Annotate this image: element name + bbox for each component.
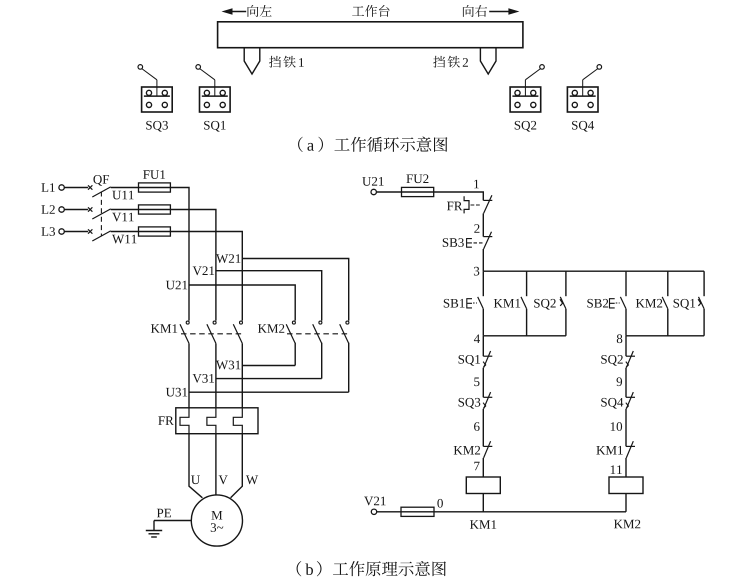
wire KM1-3 to FR <box>241 343 243 407</box>
SB2 actuator E <box>610 299 615 308</box>
label dang-tie-1 <box>269 56 304 68</box>
wire U11 to KM1-1 <box>139 188 190 321</box>
wire U21 to FU2 <box>376 191 401 193</box>
label KM2 (interlock) <box>454 446 480 455</box>
wire V21 to fuse <box>377 511 401 513</box>
wire coil KM1 to rail <box>482 494 484 512</box>
label SQ1 (NO) <box>674 299 695 310</box>
wire bus to SB1 <box>482 271 484 296</box>
button SB3 NC <box>483 232 492 249</box>
contactor KM2 main contact 2 <box>313 321 322 343</box>
wire L1 to FU1 <box>111 187 139 189</box>
terminal L3 circle <box>59 229 64 234</box>
label V11 <box>112 213 133 222</box>
QF linkage dashed <box>100 192 102 237</box>
fuse FU2 <box>402 187 434 196</box>
KM2 linkage dashed <box>287 333 350 335</box>
contactor KM2 main contact 3 <box>340 321 349 343</box>
wire SB1 to node 4 <box>482 309 484 336</box>
fuse FU1-2 <box>139 205 171 214</box>
label U31 <box>166 388 187 397</box>
label dang-tie-2 <box>433 56 468 68</box>
contact KM1 aux NO <box>521 297 527 309</box>
wire node 10 <box>625 409 627 447</box>
coil KM2 <box>609 477 643 494</box>
wire V to motor <box>215 434 217 495</box>
label KM1 (main contacts) <box>151 324 177 333</box>
stop dog 1 <box>244 48 260 74</box>
wire node8 to SQ2nc <box>625 336 627 356</box>
FR contact dashes <box>471 204 482 206</box>
contactor KM1 main contact 3 <box>233 321 242 343</box>
wire bus to KM1 aux <box>526 271 528 296</box>
node 4 <box>474 334 480 343</box>
wire V31 crossover <box>216 378 322 380</box>
label W11 <box>112 235 136 244</box>
wire node 11 <box>625 458 627 477</box>
limit switch SQ2 NO contact <box>560 297 566 309</box>
wire KM1 to node 4 <box>526 309 528 336</box>
label SQ1 (NC) <box>459 355 480 366</box>
wire W to motor <box>231 434 243 498</box>
motor M circle <box>191 495 242 546</box>
wire KM1-2 to FR <box>215 343 217 407</box>
SB1 dashes <box>473 302 477 304</box>
label SB3 <box>443 238 464 247</box>
label SB2 <box>587 299 608 308</box>
wire U21 branch <box>189 285 295 321</box>
label W <box>246 475 258 484</box>
node 7 <box>474 462 479 471</box>
wire W21 branch <box>242 259 348 321</box>
label SQ2 (NO) <box>534 299 556 310</box>
FR heater element 3 <box>233 408 242 434</box>
wire V11 to KM1-2 <box>139 210 216 321</box>
node 10 <box>611 422 622 431</box>
button SB1 NO contact <box>478 297 484 309</box>
limit switch SQ2 symbol <box>510 65 544 112</box>
label U21 <box>166 281 187 290</box>
wire W31 crossover <box>242 365 295 367</box>
SB3 dashes <box>474 242 484 244</box>
label SQ4 (NC) <box>601 398 623 409</box>
wire U to motor <box>189 434 202 498</box>
wire W11 to KM1-3 <box>139 232 243 321</box>
limit switch SQ3 symbol <box>138 65 172 112</box>
node 5 <box>474 377 479 386</box>
wire node 4 <box>483 335 566 337</box>
contactor KM1 main contact 1 <box>180 321 189 343</box>
worktable <box>218 22 523 48</box>
ground symbol <box>146 521 162 538</box>
thermal relay FR box <box>176 408 258 434</box>
label FU1 <box>143 170 165 179</box>
wire KM2 to node 8 <box>667 309 669 336</box>
contactor KM2 main contact 1 <box>286 321 295 343</box>
wire SQ2 to node 4 <box>565 309 567 336</box>
fuse FU1-3 <box>139 227 171 236</box>
label SQ1 <box>204 121 225 132</box>
wire L3 to QF <box>64 231 88 233</box>
label SB1 <box>444 299 465 308</box>
label gong-zuo-tai <box>352 5 389 17</box>
wire L2 to QF <box>64 209 88 211</box>
button SB2 NO contact <box>620 297 626 309</box>
terminal L1 label <box>41 183 54 192</box>
SB2 dashes <box>616 302 620 304</box>
limit switch SQ4 NC contact <box>626 392 635 409</box>
label KM2 (aux) <box>636 299 662 308</box>
wire node4 to SQ1nc <box>482 336 484 356</box>
caption (a) <box>298 137 447 152</box>
limit switch SQ1 symbol <box>196 65 230 112</box>
wire node 8 <box>626 335 704 337</box>
label V21 <box>193 266 214 275</box>
arrow left <box>222 8 247 15</box>
wire coil KM2 to rail <box>625 494 627 512</box>
motor label 3~ <box>211 523 224 532</box>
node 9 <box>617 377 623 386</box>
terminal V21 label <box>364 497 385 506</box>
wire bus to KM2 aux <box>667 271 669 296</box>
label FR (contact) <box>447 202 463 211</box>
wire node 6 <box>482 409 484 447</box>
terminal L1 circle <box>59 185 64 190</box>
contactor KM1 main contact 2 <box>207 321 216 343</box>
wire node 9 <box>625 368 627 398</box>
node 1 <box>474 180 479 189</box>
caption (b) <box>297 561 446 576</box>
label SQ2 (NC) <box>601 355 623 366</box>
label U <box>191 475 200 484</box>
fuse FU1-1 <box>139 183 171 192</box>
label KM2 (main contacts) <box>258 324 284 333</box>
terminal V21 circle <box>371 509 376 514</box>
terminal L2 label <box>41 205 54 214</box>
label SQ2 <box>515 121 537 132</box>
wire node 5 <box>482 368 484 398</box>
wire SB2 to node 8 <box>625 309 627 336</box>
terminal L3 label <box>41 227 55 236</box>
motor label M <box>211 511 222 520</box>
label SQ4 <box>572 121 594 132</box>
wire node 1 <box>402 192 484 200</box>
label KM2 (coil) <box>614 520 640 529</box>
label SQ3 <box>146 121 168 132</box>
label KM1 (aux) <box>494 299 520 308</box>
wire L3 to FU1 <box>111 231 139 233</box>
node 0 <box>437 499 443 508</box>
terminal U21 (control) label <box>362 177 383 186</box>
node 8 <box>617 334 623 343</box>
contact KM2 NC interlock <box>483 441 492 458</box>
stop dog 2 <box>480 48 496 74</box>
wire KM2-3 down <box>348 343 350 393</box>
label SQ3 (NC) <box>459 398 481 409</box>
wire node 7 <box>482 458 484 477</box>
limit switch SQ3 NC contact <box>483 392 492 409</box>
label U11 <box>112 191 133 200</box>
breaker QF pole 1 <box>88 185 111 197</box>
wire SQ1 to node 8 <box>703 309 705 336</box>
label KM1 (coil) <box>470 520 496 529</box>
SB1 actuator E <box>467 299 472 308</box>
label KM1 (interlock) <box>596 446 622 455</box>
label xiang-you <box>463 5 487 17</box>
wire KM2-1 down <box>294 343 296 366</box>
node 11 <box>611 465 622 474</box>
label PE <box>157 509 171 518</box>
coil KM1 <box>466 477 500 494</box>
limit switch SQ2 NC contact <box>626 351 635 368</box>
label FU2 <box>406 174 428 183</box>
wire node 3 vertical <box>482 249 484 271</box>
wire node 2 <box>482 213 484 236</box>
FR contact NC <box>483 195 492 213</box>
wire node 3 bus <box>483 270 704 272</box>
label FR (heaters) <box>158 416 174 425</box>
wire bus to SQ1 NO <box>703 271 705 296</box>
wire bus to SB2 <box>625 271 627 296</box>
terminal U21 (control) circle <box>371 189 376 194</box>
label V <box>219 475 228 484</box>
FR heater element 2 <box>207 408 216 434</box>
wire KM2-2 down <box>321 343 323 379</box>
limit switch SQ1 NO contact <box>698 297 704 309</box>
label V31 <box>193 374 214 383</box>
wire node 0 rail <box>401 511 626 513</box>
contact KM1 NC interlock <box>626 441 635 458</box>
FR heater element 1 <box>180 408 189 434</box>
fuse FU (bottom) <box>401 507 434 516</box>
label QF <box>93 175 109 186</box>
breaker QF pole 3 <box>88 229 111 241</box>
FR contact element <box>464 196 469 213</box>
node 2 <box>474 224 479 233</box>
wire bus to SQ2 NO <box>565 271 567 296</box>
wire L2 to FU1 <box>111 209 139 211</box>
KM1 linkage dashed <box>181 333 244 335</box>
limit switch SQ4 symbol <box>567 65 601 112</box>
wire L1 to QF <box>64 187 88 189</box>
SB3 actuator E <box>467 239 472 248</box>
terminal L2 circle <box>59 207 64 212</box>
label xiang-zuo <box>248 5 272 17</box>
label W31 <box>216 361 240 370</box>
limit switch SQ1 NC contact <box>483 351 492 368</box>
breaker QF pole 2 <box>88 207 111 219</box>
arrow right <box>489 8 519 15</box>
wire U31 crossover <box>189 391 349 393</box>
label W21 <box>216 254 240 263</box>
contact KM2 aux NO <box>662 297 668 309</box>
wire KM1-1 to FR <box>188 343 190 407</box>
node 6 <box>474 422 480 431</box>
wire V21 branch <box>216 271 322 321</box>
node 3 <box>474 267 479 276</box>
wire PE <box>154 520 191 522</box>
